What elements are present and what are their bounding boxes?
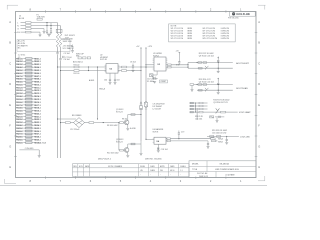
- fuse F1 label: [37, 14, 46, 20]
- svg-text:R11 R12 1K 0402: R11 R12 1K 0402: [199, 53, 214, 55]
- svg-text:C19: C19: [181, 132, 184, 134]
- op-amp U2 MCU: [105, 64, 120, 74]
- label channel3 parts: [213, 100, 229, 104]
- ground U2 pin B: [114, 80, 120, 85]
- wire main DC run: [57, 118, 65, 123]
- svg-text:08.10: 08.10: [170, 170, 174, 172]
- node OUT4 label: [240, 136, 250, 138]
- svg-text:RK10-1: RK10-1: [34, 84, 41, 86]
- svg-text:104: 104: [104, 80, 107, 82]
- svg-text:LOUT-LED: LOUT-LED: [240, 136, 250, 138]
- svg-text:L2 100uH: L2 100uH: [153, 108, 162, 110]
- svg-text:W7 27Y-07 2M: W7 27Y-07 2M: [203, 31, 216, 33]
- wire U2 out2: [118, 70, 122, 72]
- svg-text:R10 10K 0402: R10 10K 0402: [107, 152, 119, 154]
- svg-text:#GRN 2M: #GRN 2M: [221, 38, 230, 40]
- value box X1: [160, 80, 168, 83]
- label feed parts: [153, 104, 166, 111]
- svg-text:R1 R2 470K: R1 R2 470K: [63, 38, 74, 40]
- svg-text:E-GND: E-GND: [130, 128, 136, 130]
- wire BD1 out: [85, 122, 120, 124]
- label part number: [228, 18, 239, 20]
- svg-text:W3 17Y-03 1M: W3 17Y-03 1M: [171, 33, 184, 35]
- ground filter caps: [47, 32, 51, 36]
- svg-text:1 2 3 NC: 1 2 3 NC: [18, 54, 26, 56]
- resistor R3: [74, 64, 80, 67]
- wire -V bus: [60, 26, 62, 158]
- wire AC line N: [17, 25, 60, 28]
- wire U2 gnd pin A: [109, 73, 111, 82]
- label Q2 base: [107, 152, 119, 154]
- svg-text:DWG NO. GS-0815: DWG NO. GS-0815: [145, 158, 162, 160]
- svg-text:#GRN 2M: #GRN 2M: [221, 28, 230, 30]
- resistor R5: [122, 66, 127, 68]
- op-amp U3 driver: [153, 57, 168, 71]
- op-amp U4 driver: [153, 137, 166, 144]
- svg-text:RK17-1: RK17-1: [34, 105, 41, 107]
- wire R5 to U3: [127, 66, 155, 67]
- wire R4 to U2: [79, 70, 106, 72]
- capacitor C5: [56, 52, 70, 55]
- resistor R21 end: [211, 137, 224, 140]
- switch array SW1: [76, 54, 91, 59]
- svg-text:RK11-1: RK11-1: [34, 87, 40, 89]
- ground channel1: [217, 71, 220, 73]
- capacitor C13 channel1: [217, 57, 219, 71]
- corner crop mark bottom-left: [5, 179, 17, 184]
- svg-text:RK23-1: RK23-1: [34, 122, 41, 124]
- resistor network channel3: [190, 102, 208, 113]
- junction mid link: [88, 66, 89, 71]
- label U4 type: [153, 128, 164, 133]
- capacitor C14 channel2: [217, 78, 219, 92]
- wire channel3 input: [196, 108, 198, 120]
- svg-text:C12 220uF: C12 220uF: [70, 129, 80, 131]
- wire Q1 collector: [128, 114, 142, 121]
- capacitor CX1: [46, 22, 48, 32]
- svg-text:Q4 9014 C14 104: Q4 9014 C14 104: [199, 82, 214, 84]
- diode D3 on feed B: [144, 101, 147, 109]
- node OUT3 label: [239, 111, 251, 114]
- node sense divider: [97, 66, 98, 119]
- svg-text:C8 104: C8 104: [130, 62, 136, 64]
- svg-text:SOP-8: SOP-8: [153, 55, 159, 57]
- svg-text:C15 104: C15 104: [195, 118, 202, 120]
- svg-text:RK26-1: RK26-1: [34, 131, 41, 133]
- label Q1 collector: [122, 119, 128, 121]
- wire U4 out2: [166, 140, 208, 142]
- label channel1 parts: [199, 53, 214, 57]
- power +5V pullup: [176, 51, 181, 65]
- svg-text:DSGN: DSGN: [140, 166, 146, 168]
- connector J5 AC input label: [19, 16, 25, 20]
- svg-text:R4 100: R4 100: [74, 73, 80, 75]
- svg-text:W8 27Y-08 2M: W8 27Y-08 2M: [203, 33, 216, 35]
- wire VDD to U2: [57, 66, 74, 67]
- svg-text:C18 104: C18 104: [161, 149, 168, 151]
- ground connector shield: [38, 156, 41, 158]
- svg-text:#GRN 2M: #GRN 2M: [221, 33, 230, 35]
- corner crop mark top-right: [258, 5, 266, 9]
- svg-text:BD1 MB6S: BD1 MB6S: [72, 115, 82, 117]
- svg-text:Q5 8550 SOT-23: Q5 8550 SOT-23: [213, 102, 227, 104]
- svg-text:4IN1-PCB-V1.2: 4IN1-PCB-V1.2: [98, 158, 111, 160]
- svg-text:4.00M: 4.00M: [161, 81, 166, 83]
- svg-text:#GRN 2M: #GRN 2M: [221, 31, 230, 33]
- svg-text:W5 17Y-05 1M: W5 17Y-05 1M: [171, 38, 184, 40]
- svg-text:RK12-1: RK12-1: [34, 90, 41, 92]
- ground channel2: [217, 92, 220, 94]
- label Q1 base resistor: [107, 125, 118, 127]
- label channel3 lower: [195, 116, 204, 120]
- svg-text:RK22-1: RK22-1: [34, 119, 41, 121]
- wire channel2 output pair: [196, 84, 232, 92]
- svg-text:#BRN: #BRN: [187, 38, 193, 40]
- resistor R1 bleed: [56, 34, 59, 48]
- svg-text:RK13-1: RK13-1: [34, 93, 41, 95]
- wire channel3 output: [208, 111, 238, 113]
- resistor R6: [122, 70, 127, 72]
- svg-text:R18 2.2K: R18 2.2K: [195, 116, 204, 118]
- wire Q1 emitter: [127, 124, 129, 128]
- note text lines: [18, 40, 28, 50]
- label crystal: [147, 79, 158, 83]
- ground C8: [132, 70, 135, 72]
- wire U3 to channel1: [187, 63, 197, 69]
- svg-text:W9 27Y-09 2M: W9 27Y-09 2M: [203, 36, 216, 38]
- svg-text:R19 R20 1K 0402: R19 R20 1K 0402: [212, 130, 227, 132]
- wire U4 out1: [166, 138, 211, 140]
- label BD1: [70, 115, 82, 131]
- resistor R4: [74, 70, 80, 75]
- svg-text:RK25-1: RK25-1: [34, 128, 41, 130]
- svg-text:SW1 DIP: SW1 DIP: [76, 54, 85, 56]
- svg-text:X1 4MHz: X1 4MHz: [147, 81, 154, 83]
- capacitor C19 mid: [178, 131, 184, 139]
- svg-text:C10 C11 22P: C10 C11 22P: [147, 79, 158, 81]
- zone reference ticks and labels: [9, 8, 260, 183]
- wire AC line FG: [17, 31, 40, 34]
- capacitor C10 C11 crystal: [153, 77, 156, 80]
- company logo box GOLDHE: [230, 12, 256, 17]
- svg-text:#BRN: #BRN: [187, 28, 193, 30]
- transistor Q5: [216, 108, 220, 113]
- svg-text:#BRN: #BRN: [187, 31, 193, 33]
- svg-text:R13 R14 4.7K: R13 R14 4.7K: [199, 79, 212, 81]
- svg-text:R3 100: R3 100: [74, 64, 80, 66]
- wire AC line G: [17, 28, 44, 31]
- svg-text:Q3 9014 C13 104: Q3 9014 C13 104: [199, 55, 214, 57]
- ground Q2: [126, 156, 129, 158]
- svg-text:RK28-1: RK28-1: [34, 137, 41, 139]
- resistor R15 bias: [190, 84, 197, 86]
- crystal X1: [150, 71, 158, 77]
- svg-text:RV1 10D471: RV1 10D471: [65, 35, 75, 37]
- power +5V arrow: [136, 46, 142, 50]
- label Q2: [116, 139, 123, 143]
- wire channel4 output: [207, 136, 239, 138]
- title block: [189, 161, 256, 178]
- svg-text:CHKD: CHKD: [150, 166, 156, 168]
- svg-text:MODEL: MODEL: [192, 164, 199, 166]
- wire +V bus: [57, 23, 59, 158]
- wire Q2 emitter: [127, 152, 129, 155]
- diode D4 channel3: [210, 116, 225, 118]
- sheet border frame: [16, 12, 257, 178]
- resistor R2 bleed: [59, 34, 62, 48]
- wire +5V feed A: [140, 50, 142, 141]
- svg-text:104: 104: [117, 80, 120, 82]
- svg-text:GOLD-HE: GOLD-HE: [236, 12, 250, 16]
- svg-text:RK27-1: RK27-1: [34, 134, 41, 136]
- wire to Q1 base: [119, 122, 124, 124]
- capacitor C7: [63, 56, 72, 59]
- svg-text:Q1 9013: Q1 9013: [116, 109, 123, 111]
- ground crystal: [153, 81, 156, 83]
- label RV1: [65, 35, 75, 39]
- svg-text:C16 104 D5 LED: C16 104 D5 LED: [212, 133, 227, 135]
- svg-text:RK02-1: RK02-1: [34, 61, 41, 63]
- svg-text:W2 17Y-02 1M: W2 17Y-02 1M: [171, 31, 184, 33]
- svg-text:L: L: [17, 23, 18, 25]
- wire VSS to U2: [60, 70, 74, 71]
- svg-text:RK16-1: RK16-1: [34, 102, 41, 104]
- svg-text:SOT-23: SOT-23: [116, 111, 123, 113]
- wire U4 gnd pin: [158, 144, 159, 150]
- wire U2 out1: [118, 66, 122, 68]
- svg-text:U3 LM358: U3 LM358: [153, 53, 162, 55]
- ground C4: [71, 51, 74, 53]
- svg-text:CHEN: CHEN: [150, 170, 156, 172]
- svg-text:RK07-1: RK07-1: [34, 76, 41, 78]
- svg-text:1/4W 1206: 1/4W 1206: [63, 41, 72, 43]
- label mid net: [73, 61, 83, 64]
- wire DC run upper: [58, 118, 77, 120]
- connector CON1 pin rows: [16, 57, 46, 144]
- svg-text:P/N GS-0815: P/N GS-0815: [228, 18, 239, 20]
- page bottom shadow edge: [0, 185, 267, 187]
- node OUT1 label: [236, 62, 249, 65]
- revision table: [73, 164, 190, 177]
- wire +5V feed B: [145, 50, 147, 139]
- svg-text:RK15-1: RK15-1: [34, 99, 41, 101]
- label VCC rail: [63, 44, 74, 49]
- wire R6 to bus: [127, 70, 142, 71]
- capacitor C16 channel4: [225, 136, 228, 144]
- ground U2 pin A: [104, 80, 112, 85]
- svg-text:C6 104: C6 104: [64, 59, 70, 61]
- svg-text:RK19-1: RK19-1: [34, 111, 41, 113]
- svg-text:#GRN 2M: #GRN 2M: [221, 36, 230, 38]
- svg-text:C7 104: C7 104: [65, 57, 71, 59]
- svg-text:1:1: 1:1: [180, 170, 182, 172]
- ground Q1: [126, 128, 136, 130]
- svg-text:D3 1N4007: D3 1N4007: [153, 106, 163, 108]
- wire R3 to U2: [79, 66, 106, 68]
- svg-text:SOP-18: SOP-18: [100, 59, 107, 61]
- svg-text:C5 104: C5 104: [64, 53, 70, 55]
- svg-text:W10 27Y-010 2M: W10 27Y-010 2M: [203, 38, 218, 40]
- svg-text:RK03-1: RK03-1: [34, 64, 41, 66]
- wire channel1 output pair: [196, 62, 232, 70]
- svg-text:#BRN: #BRN: [187, 36, 193, 38]
- svg-text:2008.10.15: 2008.10.15: [199, 176, 208, 178]
- svg-text:NOTE:: NOTE:: [171, 26, 178, 28]
- corner crop mark bottom-right: [258, 176, 265, 181]
- corner crop mark top-left: [7, 5, 18, 9]
- note box mains section: [17, 40, 70, 52]
- transistor Q1: [124, 120, 129, 125]
- resistor R22 end: [212, 140, 218, 142]
- label channel4 parts: [212, 130, 227, 134]
- label U2 type: [100, 54, 108, 61]
- wire bus to U3 in1: [145, 64, 154, 65]
- wiring notes table: [169, 24, 236, 42]
- transistor Q2: [124, 148, 129, 153]
- svg-text:HT46R47: HT46R47: [100, 57, 108, 59]
- label Q1: [116, 109, 123, 113]
- svg-text:RK09-1: RK09-1: [34, 82, 41, 84]
- label U3 type: [153, 53, 162, 57]
- svg-text:W6 27Y-06 2M: W6 27Y-06 2M: [203, 28, 216, 30]
- wire U3 out1: [166, 64, 188, 66]
- svg-text:+12V: +12V: [148, 46, 153, 48]
- svg-text:F1: F1: [37, 14, 39, 16]
- resistor R7: [65, 122, 70, 124]
- svg-text:RK08-1: RK08-1: [34, 79, 41, 81]
- resistor values label: [63, 38, 74, 42]
- ground feed bus: [140, 141, 143, 155]
- capacitor C4 rail: [71, 45, 73, 51]
- svg-text:U2: U2: [100, 54, 102, 56]
- svg-text:SW-B: SW-B: [218, 142, 223, 144]
- svg-text:W4 17Y-04 1M: W4 17Y-04 1M: [171, 36, 184, 38]
- svg-text:RK29-1: RK29-1: [34, 140, 41, 142]
- wire AC line L: [17, 22, 57, 25]
- svg-text:RK21-1: RK21-1: [34, 116, 41, 118]
- power +12V arrow: [145, 46, 153, 50]
- svg-text:R16 R17 10K 0402: R16 R17 10K 0402: [213, 100, 229, 102]
- svg-text:TITLE: TITLE: [192, 169, 198, 171]
- capacitor C17 end: [207, 141, 224, 148]
- label channel2 parts: [199, 79, 214, 83]
- svg-text:RK18-1: RK18-1: [34, 108, 41, 110]
- label spare pins: [18, 54, 26, 58]
- svg-text:RK01-1: RK01-1: [34, 58, 41, 60]
- svg-text:R8 1K: R8 1K: [122, 119, 128, 121]
- wire bus to U3 in2: [145, 67, 146, 68]
- svg-text:RK06-1: RK06-1: [34, 73, 41, 75]
- capacitor CX2: [50, 23, 52, 33]
- capacitor C6: [59, 58, 70, 61]
- svg-text:Q2 9013: Q2 9013: [116, 139, 123, 141]
- svg-text:W1 17Y-01 1M: W1 17Y-01 1M: [171, 28, 184, 30]
- ground channel2 bias: [191, 85, 194, 91]
- ground channel3: [216, 118, 219, 123]
- svg-text:SOT-23: SOT-23: [116, 141, 123, 143]
- wire U3 out2: [166, 66, 188, 68]
- svg-text:C9 470uF/16V: C9 470uF/16V: [153, 104, 166, 106]
- varistor RV1 across lines: [56, 29, 62, 32]
- label AGND: [89, 79, 106, 91]
- resistor R9: [119, 149, 124, 151]
- svg-text:RK05-1: RK05-1: [34, 70, 41, 72]
- wire bus to U4: [145, 139, 154, 140]
- svg-text:CON-GND: CON-GND: [25, 148, 34, 150]
- ground U4: [157, 149, 168, 152]
- node OUT2 label: [236, 87, 248, 90]
- capacitor C9 on feed A: [139, 102, 142, 109]
- wire divider to Q2: [118, 123, 120, 151]
- capacitor C8 bypass: [130, 62, 136, 70]
- ground AC earth: [43, 29, 46, 34]
- ground FG: [39, 35, 42, 37]
- wire U2 gnd pin B: [114, 73, 116, 82]
- connector CON1 shield wire: [19, 148, 39, 156]
- svg-text:RK20-1: RK20-1: [34, 113, 41, 115]
- label PCB number: [98, 158, 162, 160]
- svg-text:#BRN: #BRN: [187, 33, 193, 35]
- svg-text:R8 10K 0402: R8 10K 0402: [107, 125, 118, 127]
- bridge rectifier BD1: [70, 118, 84, 128]
- wire Q2 collector: [128, 143, 141, 148]
- svg-text:SOP-8: SOP-8: [153, 132, 159, 134]
